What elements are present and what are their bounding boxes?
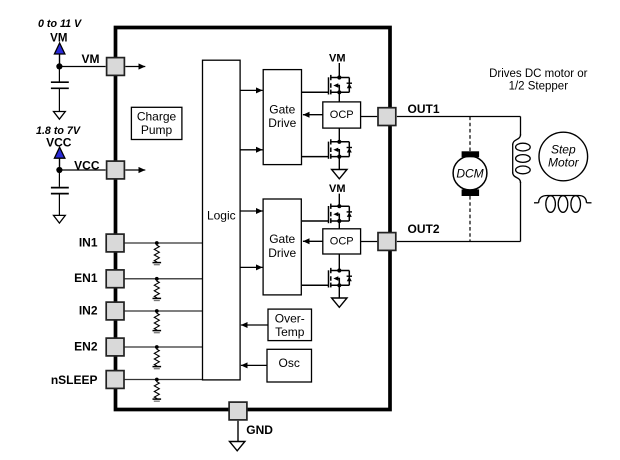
svg-text:Step: Step — [551, 143, 576, 157]
pin pad IN2 — [106, 302, 124, 320]
arrow VCC into IC — [125, 169, 145, 171]
svg-text:VCC: VCC — [74, 159, 100, 173]
gate drive block 2 — [263, 199, 301, 295]
svg-text:0 to 11 V: 0 to 11 V — [38, 18, 82, 30]
wire EN1 to logic — [124, 278, 203, 280]
wire VM node to pin — [59, 66, 105, 68]
svg-text:Drive: Drive — [268, 116, 296, 130]
wire Q2 source to ground — [338, 157, 340, 170]
svg-text:Over-: Over- — [275, 311, 305, 325]
transistor Q4 (low side 2) — [302, 268, 352, 288]
pin pad EN2 — [106, 338, 124, 356]
node VM — [56, 63, 62, 69]
pin pad VM — [107, 58, 125, 76]
IC boundary — [116, 28, 391, 410]
svg-text:OCP: OCP — [330, 236, 354, 248]
wire Q1 source to OCP1 — [338, 92, 340, 102]
arrow OCP2 to gate drive 2 — [303, 240, 323, 242]
svg-text:OUT1: OUT1 — [408, 102, 440, 116]
wire Q3 source to OCP2 — [338, 221, 340, 229]
OCP block 1 — [323, 102, 361, 128]
svg-text:VM: VM — [329, 52, 346, 64]
motor M2 (step motor) — [539, 132, 588, 181]
svg-text:Drive: Drive — [268, 246, 296, 260]
transistor Q2 (low side 1) — [302, 139, 352, 159]
logic block U1 — [203, 60, 241, 380]
pin pad OUT2 — [378, 233, 396, 251]
pin pad nSLEEP — [106, 371, 124, 389]
svg-text:Temp: Temp — [275, 325, 305, 339]
wire VM to Q3 drain — [338, 194, 340, 207]
wire Q4 source to ground — [338, 285, 340, 298]
pin pad IN1 — [106, 234, 124, 252]
OCP block 2 — [323, 229, 361, 254]
svg-text:IN2: IN2 — [79, 304, 98, 318]
wire VM to Q1 drain — [338, 63, 340, 78]
svg-text:OCP: OCP — [330, 109, 354, 121]
pin pad GND — [229, 402, 247, 420]
svg-text:Pump: Pump — [141, 123, 173, 137]
arrow logic to gate drive 2a — [240, 210, 263, 212]
resistor R3 (IN2 pulldown) — [153, 309, 162, 333]
svg-text:Gate: Gate — [269, 232, 295, 246]
wire GND pad to ground — [237, 421, 239, 442]
wire (dashed) OUT1 to DC motor — [469, 117, 471, 152]
transistor Q3 (high side 2) — [302, 204, 352, 224]
svg-text:IN1: IN1 — [79, 236, 98, 250]
svg-text:DCM: DCM — [456, 166, 483, 180]
svg-text:VM: VM — [82, 52, 100, 66]
wire EN2 to logic — [124, 346, 203, 348]
wire nSLEEP to logic — [124, 379, 203, 381]
supply arrow VCC — [59, 158, 61, 167]
arrow osc to logic — [241, 364, 267, 366]
wire C1 to ground — [58, 88, 60, 111]
wire OCP1 to OUT1 pad — [361, 116, 378, 118]
arrow logic to gate drive 1a — [240, 89, 263, 91]
capacitor C2 — [51, 188, 69, 194]
oscillator block — [267, 349, 312, 382]
resistor R2 (EN1 pulldown) — [153, 277, 162, 301]
svg-text:EN1: EN1 — [74, 271, 98, 285]
charge pump block — [131, 107, 182, 139]
supply arrow VM — [59, 54, 61, 64]
svg-text:nSLEEP: nSLEEP — [51, 373, 98, 387]
wire C2 to ground — [58, 194, 60, 216]
svg-text:VM: VM — [329, 183, 346, 195]
wire (dashed) DC motor to OUT2 — [469, 196, 471, 242]
wire OUT2 — [397, 241, 521, 243]
gate drive block 1 — [263, 70, 301, 165]
inductor L1 (stepper winding) — [513, 134, 531, 183]
wire inductor to OUT2 — [520, 182, 522, 242]
wire IN1 to logic — [124, 242, 203, 244]
arrow logic to gate drive 1b — [240, 149, 263, 151]
resistor R5 (nSLEEP pulldown) — [153, 378, 162, 402]
pin pad EN1 — [106, 270, 124, 288]
svg-text:1/2 Stepper: 1/2 Stepper — [509, 80, 569, 92]
svg-text:OUT2: OUT2 — [408, 222, 440, 236]
pin pad VCC — [107, 161, 125, 179]
svg-text:Motor: Motor — [548, 155, 580, 169]
over-temp block — [268, 309, 312, 341]
svg-text:Charge: Charge — [137, 110, 177, 124]
arrow logic to gate drive 2b — [240, 266, 263, 268]
svg-text:Drives DC motor or: Drives DC motor or — [489, 68, 588, 80]
arrow VM into IC — [125, 66, 145, 68]
svg-text:Gate: Gate — [269, 103, 295, 117]
svg-text:EN2: EN2 — [74, 340, 98, 354]
wire OUT1 — [397, 116, 521, 118]
svg-text:Osc: Osc — [279, 356, 300, 370]
ground (VCC cap) — [54, 215, 66, 223]
wire IN2 to logic — [124, 310, 203, 312]
motor M1 (DC motor) — [453, 156, 487, 190]
transistor Q1 (high side 1) — [302, 75, 352, 95]
wire VCC node to pin — [59, 169, 105, 171]
ground (GND pin) — [230, 442, 245, 451]
node VCC — [56, 167, 62, 173]
pin pad OUT1 — [378, 108, 396, 126]
resistor R4 (EN2 pulldown) — [153, 345, 162, 369]
wire OCP2 to OUT2 pad — [361, 241, 378, 243]
ground (bridge 2) — [332, 298, 347, 307]
svg-text:Logic: Logic — [207, 209, 236, 223]
wire VM node down — [58, 67, 60, 82]
arrow OCP1 to gate drive 1 — [303, 114, 323, 116]
wire OCP1 to Q2 drain — [338, 128, 340, 142]
wire OUT1 to inductor — [520, 117, 522, 136]
svg-text:GND: GND — [246, 423, 273, 437]
resistor R1 (IN1 pulldown) — [153, 241, 162, 265]
wire VCC node down — [58, 170, 60, 187]
ground (VM cap) — [54, 112, 66, 120]
wire OCP2 to Q4 drain — [338, 254, 340, 271]
inductor L2 (1/2 stepper coil) — [534, 196, 592, 213]
svg-text:VM: VM — [50, 32, 67, 44]
capacitor C1 — [51, 82, 69, 88]
ground (bridge 1) — [332, 170, 347, 179]
arrow over-temp to logic — [241, 324, 268, 326]
